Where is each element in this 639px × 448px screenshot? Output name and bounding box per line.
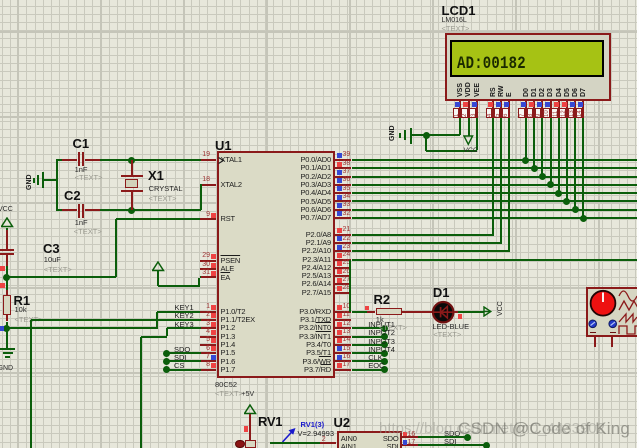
U1 pin 28 stub [335, 292, 351, 294]
U1 value label 80C52 [215, 381, 237, 389]
probe label RV1(3) [301, 421, 325, 429]
U1 reference label [215, 139, 232, 152]
LCD pin 11 D4 [556, 88, 563, 97]
wire LCD D7 vertical [582, 118, 584, 218]
wire LCD D4 vertical [558, 118, 560, 193]
U1 pin 1 P1.0/T2 stub [200, 311, 216, 313]
wire INPUT1 net [352, 327, 385, 329]
LCD pin 3 VEE [474, 83, 481, 97]
capacitor C2 [62, 209, 77, 211]
LCD pin 10 D3 [547, 88, 554, 97]
watermark url text [379, 421, 605, 437]
wire EOC net [352, 369, 385, 371]
wire P2.2 to LCD E [352, 250, 510, 252]
wire SDO net [167, 352, 201, 354]
node junction D5 to P0.5 bus [563, 198, 570, 205]
U1 pin 22 stub [335, 242, 351, 244]
LCD screen [450, 40, 604, 78]
wire RST left [116, 218, 200, 220]
node KEY1 left edge terminal square [0, 326, 4, 331]
node RST junction on C3-R1 wire [3, 274, 10, 281]
resistor R2 labels [374, 293, 391, 306]
U1 pin 10 stub [335, 311, 351, 313]
U1 pin 15 stub [335, 352, 351, 354]
U1 pin 24 stub [335, 259, 351, 261]
ADC U2 label [334, 416, 351, 429]
resistor R2 [367, 311, 375, 313]
wire to VEE pin3 [426, 150, 477, 152]
wire left vertical C1-C2 [56, 160, 58, 210]
signal generator instrument body [586, 287, 639, 337]
wire XTAL2 jog vertical [200, 184, 202, 210]
wire SDI net [167, 360, 201, 362]
LCD LM016L body [445, 33, 611, 101]
potentiometer RV1 wiper dot [235, 440, 244, 448]
wire P0.4 bus to right edge [352, 192, 639, 194]
wire VSS to GND [426, 134, 460, 136]
LCD pin 14 D7 [580, 88, 587, 97]
U1 pin 6 P1.5 stub [200, 352, 216, 354]
U1 pin 27 stub [335, 283, 351, 285]
wire LCD D0 vertical [525, 118, 527, 160]
power terminal VCC (down arrow) at LCD VDD pin2 [468, 118, 470, 136]
ground symbol below R1 [0, 348, 15, 350]
resistor R1 [6, 290, 8, 295]
LCD display text AD:00182 [457, 56, 526, 73]
wire VEE pin3 down [476, 118, 478, 150]
U1 pin 4 P1.3 stub [200, 336, 216, 338]
crystal X1 [131, 160, 133, 176]
logic state square at R2 left [365, 306, 370, 311]
power terminal up arrow at RV1 [244, 404, 257, 415]
U1 pin 32 stub [335, 217, 351, 219]
wire LCD D3 vertical [550, 118, 552, 184]
wire LCD D2 vertical [541, 118, 543, 176]
logic state square red (left edge upper) [0, 266, 5, 271]
U1 pin 11 stub [335, 319, 351, 321]
wire KEY3 net [167, 327, 201, 329]
capacitor C1 [62, 159, 77, 161]
node R1/KEY1 junction [3, 325, 10, 332]
wire VSS pin1 down [459, 118, 461, 135]
LED D1 labels [433, 286, 450, 299]
node junction D6 to P0.6 bus [572, 206, 579, 213]
U1 pin 13 stub [335, 336, 351, 338]
LCD pin 4 RS [490, 87, 497, 97]
signal generator terminal 2 [611, 336, 613, 347]
logic state square at RV1 [244, 426, 249, 431]
node junction D2 to P0.2 bus [539, 173, 546, 180]
U2 pin 2 stub [320, 442, 336, 444]
wire LCD RW vertical to P2.1 [500, 118, 502, 243]
LCD pin 2 VDD [465, 82, 472, 97]
capacitor C1 label [73, 137, 90, 150]
wire INPUT4 net [352, 352, 385, 354]
wire P2.3 branch down to P3.0 [349, 260, 351, 312]
U2 pin 16 SDO stub and wire [402, 436, 418, 438]
wire P2.1 to LCD RW [352, 242, 502, 244]
IC U1 80C52 microcontroller body [217, 151, 335, 378]
power terminal VCC right arrow [483, 306, 493, 317]
wire LCD RS vertical to P2.0 [492, 118, 494, 234]
potentiometer RV1 body (cut at bottom) [245, 440, 256, 448]
watermark CSDN text [458, 420, 630, 438]
U1 pin 5 P1.4 stub [200, 344, 216, 346]
U1 pin 3 P1.2 stub [200, 327, 216, 329]
wire C3 to R1 [6, 266, 8, 290]
LCD pin 9 D2 [539, 88, 546, 97]
node junction D0 to P0.0 bus [522, 157, 529, 164]
U1 pin 12 stub [335, 327, 351, 329]
scrollbar edge strip [637, 0, 639, 448]
wire LCD D1 vertical [533, 118, 535, 168]
node junction D3 to P0.3 bus [547, 181, 554, 188]
power terminal VCC top-left label [0, 206, 13, 214]
LCD pin 8 D1 [531, 88, 538, 97]
signal generator terminal 1 [594, 336, 596, 347]
node crystal top junction [128, 157, 135, 164]
U1 pin 31 EA stub [200, 276, 216, 278]
wire C2 left [56, 209, 62, 211]
wire C1 to XTAL1 [100, 159, 201, 161]
wire P2.0 to LCD RS [352, 234, 494, 236]
signal generator blue knob 1 [588, 319, 598, 329]
U1 pin 19 XTAL1 stub [200, 159, 216, 161]
capacitor C3 labels [43, 242, 60, 255]
wire P0.5 bus to right edge [352, 200, 639, 202]
U1 pin 9 RST stub [200, 218, 216, 220]
wire P3.0 to R2 [352, 311, 368, 313]
U1 pin 21 stub [335, 234, 351, 236]
node junction D1 to P0.1 bus [531, 165, 538, 172]
wire P0.1 bus to right edge [352, 167, 639, 169]
wire LCD D5 vertical [566, 118, 568, 201]
wire INPUT2 net [352, 336, 385, 338]
power terminal VCC up arrow [1, 217, 14, 228]
wire LCD E vertical to P2.2 [508, 118, 510, 251]
wire P0.2 bus to right edge [352, 176, 639, 178]
signal generator waveform icons [617, 288, 639, 336]
crystal X1 labels [148, 169, 164, 182]
wire P0.7 bus to right edge [352, 217, 639, 219]
U1 pin 37 stub [335, 176, 351, 178]
U1 pin 35 stub [335, 192, 351, 194]
node junction D7 to P0.7 bus [580, 215, 587, 222]
potentiometer RV1 terminal [249, 414, 251, 440]
U1 pin 7 P1.6 stub [200, 360, 216, 362]
node junction VSS/VEE [423, 132, 430, 139]
LED D1 [431, 300, 457, 325]
signal generator knob tick labels [590, 332, 596, 334]
U1 pin 14 stub [335, 344, 351, 346]
wire CLK net [352, 360, 385, 362]
wire D1 to VCC arrow [454, 311, 462, 313]
wire INPUT3 net [352, 344, 385, 346]
wire P2.3 long to right edge [352, 259, 639, 261]
LCD pin 6 E [506, 92, 513, 97]
wire EA left [200, 276, 201, 278]
wire P0.6 bus to right edge [352, 209, 639, 211]
U1 pin 23 stub [335, 250, 351, 252]
U1 pin 29 PSEN stub [200, 260, 216, 262]
LCD pin 12 D5 [564, 88, 571, 97]
potentiometer RV1 label [258, 415, 282, 428]
power terminal +5V label [242, 391, 255, 399]
U1 pin 38 stub [335, 167, 351, 169]
LCD pin 7 D0 [523, 88, 530, 97]
LCD pin 13 D6 [572, 88, 579, 97]
U1 pin 30 ALE stub [200, 268, 216, 270]
logic state square at D1 right [458, 314, 463, 319]
capacitor C2 label [64, 189, 81, 202]
U1 pin 36 stub [335, 184, 351, 186]
wire P0.3 bus to right edge [352, 184, 639, 186]
capacitor C3 [6, 230, 8, 250]
resistor R1 labels [14, 294, 31, 307]
U1 pin 18 XTAL2 stub [200, 184, 216, 186]
LCD pin 5 RW [498, 85, 505, 97]
U1 pin 26 stub [335, 275, 351, 277]
signal generator knob (red) [589, 289, 618, 318]
U1 pin 25 stub [335, 267, 351, 269]
power terminal up arrow at EA [152, 261, 165, 272]
wire C2 to XTAL2 jog [100, 209, 201, 211]
LCD pin 1 VSS [457, 83, 464, 97]
wire P0.0 bus to right edge [352, 159, 639, 161]
ADC U2 body (cut at bottom) [337, 431, 402, 448]
wire junction down to VEE row [425, 136, 427, 151]
node crystal bottom junction [128, 207, 135, 214]
wire RST jog down [115, 219, 117, 277]
U1 pin 2 P1.1/T2EX stub [200, 319, 216, 321]
U2 pin 17 SDI stub and wire [402, 444, 418, 446]
U1 pin 33 stub [335, 209, 351, 211]
node junction D4 to P0.4 bus [555, 190, 562, 197]
probe voltage V=2.94993 [298, 430, 335, 438]
wire C1 left [56, 159, 62, 161]
wire CS net [167, 369, 201, 371]
wire KEY2 net [31, 319, 201, 321]
voltage probe RV1(3) arrow [280, 423, 300, 445]
ground symbol left of crystal caps [44, 179, 57, 181]
wire RST jog left to C3/R1 [7, 276, 116, 278]
wire R1 to GND [6, 322, 8, 350]
LCD1 label [442, 4, 476, 17]
U1 pin 16 stub [335, 360, 351, 362]
wire RV1 wiper to U2 AIN0 [270, 442, 320, 444]
wire KEY1 net [157, 311, 200, 313]
signal generator blue knob 2 [608, 319, 618, 329]
ground symbol near LCD [412, 134, 427, 136]
U1 pin 39 stub [335, 159, 351, 161]
U1 pin 17 stub [335, 369, 351, 371]
wire LCD D6 vertical [574, 118, 576, 209]
U1 pin 34 stub [335, 200, 351, 202]
logic state square red (left edge lower) [0, 283, 5, 288]
U1 XTAL1 clock input marker [218, 157, 226, 165]
U1 pin 8 P1.7 stub [200, 369, 216, 371]
